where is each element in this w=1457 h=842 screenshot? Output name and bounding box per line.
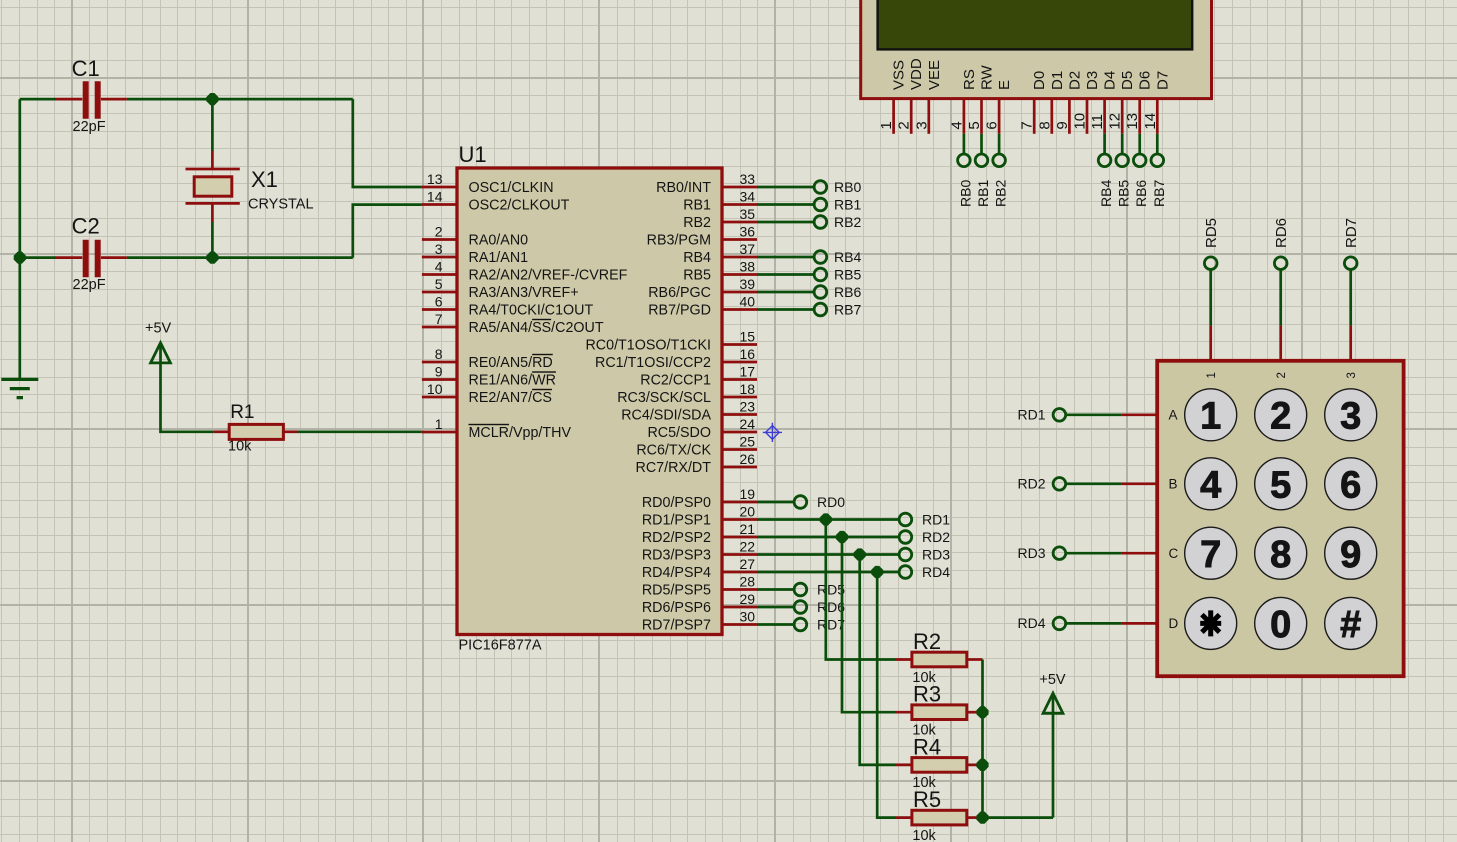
terminal RD1 keypad side	[1053, 409, 1066, 422]
wire RD7 down	[1349, 269, 1352, 326]
ground symbol	[1, 379, 38, 397]
svg-text:R5: R5	[913, 787, 941, 812]
pin 2 stub left	[422, 238, 457, 241]
svg-text:D0: D0	[1031, 71, 1048, 90]
pin 36 stub right	[722, 238, 757, 241]
resistor R2 pin right	[967, 658, 983, 661]
svg-text:RB0: RB0	[957, 180, 973, 207]
terminal RB6	[814, 286, 827, 299]
svg-text:4: 4	[1200, 465, 1221, 507]
capacitor C1 pin right	[101, 98, 127, 101]
svg-text:RD5/PSP5: RD5/PSP5	[642, 582, 711, 598]
wire LCD pin to RB6	[1138, 134, 1141, 155]
wire pin19 to terminal RD0	[757, 501, 794, 504]
LCD pin 6 E stub	[998, 99, 1001, 134]
resistor R4 pin left	[895, 764, 912, 767]
wire pin to terminal RD6	[757, 606, 794, 609]
capacitor C1 plates	[86, 81, 98, 119]
svg-text:38: 38	[740, 258, 756, 274]
junction C1 / crystal	[206, 93, 218, 105]
svg-text:2: 2	[1276, 372, 1288, 378]
pin 34 stub right	[722, 203, 757, 206]
svg-text:VSS: VSS	[891, 60, 908, 90]
svg-text:RD0/PSP0: RD0/PSP0	[642, 495, 711, 511]
pin 22 stub right	[722, 553, 757, 556]
keypad button star	[1185, 597, 1237, 649]
junction RD2	[836, 531, 848, 543]
terminal RD7 chip side	[794, 618, 807, 631]
LCD LM016L body	[861, 0, 1212, 99]
svg-text:RC5/SDO: RC5/SDO	[647, 425, 711, 441]
wire RD1 to keypad	[1065, 413, 1122, 416]
svg-text:RB1: RB1	[834, 196, 861, 212]
resistor R4 pin right	[967, 764, 983, 767]
wire RD4 to keypad	[1065, 622, 1122, 625]
pin 33 stub right	[722, 186, 757, 189]
LCD screen	[878, 0, 1193, 49]
svg-text:0: 0	[1270, 604, 1291, 646]
wire C1 node to crystal top	[211, 99, 214, 151]
pin 35 stub right	[722, 221, 757, 224]
wire RD2 to keypad	[1065, 482, 1122, 485]
terminal RD3 keypad side	[1053, 547, 1066, 560]
svg-text:U1: U1	[459, 142, 487, 167]
svg-text:23: 23	[740, 398, 756, 414]
svg-text:7: 7	[435, 311, 443, 327]
svg-text:RB7/PGD: RB7/PGD	[648, 302, 711, 318]
svg-text:RD3: RD3	[1017, 545, 1045, 561]
resistor R3 pin right	[967, 711, 983, 714]
svg-text:18: 18	[740, 381, 756, 397]
svg-text:D6: D6	[1137, 71, 1154, 90]
svg-text:RB2: RB2	[993, 180, 1009, 207]
svg-text:10k: 10k	[228, 439, 252, 455]
wire RD5 down	[1209, 269, 1212, 326]
pin 3 stub left	[422, 256, 457, 259]
svg-text:RC4/SDI/SDA: RC4/SDI/SDA	[621, 407, 711, 423]
wire LCD pin to RB4	[1103, 134, 1106, 155]
svg-text:MCLR/Vpp/THV: MCLR/Vpp/THV	[469, 425, 572, 441]
keypad col pin RD5	[1209, 326, 1212, 361]
svg-text:D1: D1	[1049, 71, 1066, 90]
terminal RB7	[814, 303, 827, 316]
svg-text:10: 10	[427, 381, 443, 397]
wire LCD pin to RB0	[963, 134, 966, 155]
svg-text:RE0/AN5/RD: RE0/AN5/RD	[469, 355, 553, 371]
svg-text:6: 6	[435, 293, 443, 309]
pin 18 stub right	[722, 396, 757, 399]
keypad button 0	[1255, 597, 1307, 649]
svg-text:12: 12	[1107, 113, 1124, 130]
svg-text:17: 17	[740, 363, 756, 379]
svg-text:RE2/AN7/CS: RE2/AN7/CS	[469, 390, 552, 406]
capacitor C2 pin right	[101, 256, 127, 259]
svg-text:36: 36	[740, 223, 756, 239]
svg-text:7: 7	[1019, 121, 1036, 129]
svg-text:30: 30	[740, 608, 756, 624]
pin 38 stub right	[722, 273, 757, 276]
svg-text:15: 15	[740, 328, 756, 344]
wire LCD pin to RB7	[1156, 134, 1159, 155]
keypad col pin RD6	[1279, 326, 1282, 361]
svg-text:9: 9	[1340, 534, 1361, 576]
svg-text:D2: D2	[1066, 71, 1083, 90]
resistor R2 pin left	[895, 658, 912, 661]
pin 8 stub left	[422, 361, 457, 364]
keypad col pin RD7	[1349, 326, 1352, 361]
wire C1 node to OSC1	[353, 99, 422, 187]
svg-text:28: 28	[740, 573, 756, 589]
svg-text:RC0/T1OSO/T1CKI: RC0/T1OSO/T1CKI	[585, 337, 711, 353]
keypad row pin RD1	[1122, 413, 1157, 416]
op-amp U1 PIC16F877A body	[457, 168, 722, 635]
svg-text:D4: D4	[1102, 71, 1119, 90]
terminal RD5 keypad top	[1204, 257, 1217, 270]
svg-text:PIC16F877A: PIC16F877A	[459, 638, 542, 654]
svg-text:RD6/PSP6: RD6/PSP6	[642, 600, 711, 616]
resistor R1 pin right	[283, 430, 297, 433]
pin 9 stub left	[422, 378, 457, 381]
wire pin to terminal RD1	[757, 518, 899, 521]
terminal RB1 LCD side	[975, 154, 988, 167]
wire pin to terminal RB5	[757, 273, 814, 276]
junction RD3	[854, 548, 866, 560]
svg-text:RC2/CCP1: RC2/CCP1	[640, 372, 711, 388]
keypad body	[1157, 361, 1403, 676]
keypad button 6	[1325, 458, 1377, 510]
LCD pin 8 D1 stub	[1050, 99, 1053, 134]
junction left rail / C2	[14, 252, 26, 264]
svg-text:RS: RS	[961, 69, 978, 90]
svg-text:40: 40	[740, 293, 756, 309]
svg-text:RD2: RD2	[922, 529, 950, 545]
svg-text:D7: D7	[1154, 71, 1171, 90]
svg-text:RB5: RB5	[834, 266, 861, 282]
svg-text:3: 3	[1346, 372, 1358, 378]
svg-text:11: 11	[1089, 114, 1106, 130]
svg-text:RD2: RD2	[1017, 476, 1045, 492]
svg-text:RB7: RB7	[834, 301, 861, 317]
svg-text:RA5/AN4/SS/C2OUT: RA5/AN4/SS/C2OUT	[469, 320, 604, 336]
junction bus R4	[976, 759, 988, 771]
svg-text:1: 1	[878, 121, 895, 129]
crystal X1 pin bottom	[211, 203, 214, 222]
svg-text:B: B	[1169, 476, 1178, 491]
wire pin to terminal RD7	[757, 623, 794, 626]
resistor R1 body	[229, 424, 283, 439]
svg-text:VDD: VDD	[908, 58, 925, 90]
resistor R3 pin left	[895, 711, 912, 714]
svg-text:RB7: RB7	[1151, 180, 1167, 207]
wire pin to terminal RB1	[757, 203, 814, 206]
svg-text:C1: C1	[72, 56, 100, 81]
wire LCD pin to RB1	[980, 134, 983, 155]
terminal RD5 chip side	[794, 583, 807, 596]
resistor R5 pin right	[967, 816, 983, 819]
svg-text:RD3: RD3	[922, 546, 950, 562]
svg-text:D: D	[1169, 616, 1179, 631]
svg-text:RD4: RD4	[922, 564, 950, 580]
svg-text:RB0/INT: RB0/INT	[656, 180, 711, 196]
svg-text:6: 6	[1340, 465, 1361, 507]
svg-text:RD7: RD7	[1343, 218, 1360, 248]
svg-text:1: 1	[1200, 396, 1221, 438]
terminal RB2	[814, 216, 827, 229]
svg-text:16: 16	[740, 346, 756, 362]
crystal X1 plate bottom	[186, 202, 240, 205]
pin 14 stub left	[422, 203, 457, 206]
wire C2 to corner	[127, 256, 353, 259]
LCD pin 2 VDD stub	[910, 99, 913, 134]
svg-text:RC3/SCK/SCL: RC3/SCK/SCL	[617, 390, 711, 406]
terminal RD0	[794, 496, 807, 509]
svg-text:RB6/PGC: RB6/PGC	[648, 285, 711, 301]
svg-text:10: 10	[1072, 113, 1089, 130]
svg-text:3: 3	[1340, 396, 1361, 438]
svg-text:+5V: +5V	[1039, 672, 1066, 688]
svg-text:VEE: VEE	[926, 60, 943, 90]
svg-text:RD1: RD1	[922, 511, 950, 527]
svg-text:25: 25	[740, 433, 756, 449]
keypad button 9	[1325, 527, 1377, 579]
terminal RD1 chip side	[899, 513, 912, 526]
svg-text:26: 26	[740, 451, 756, 467]
pin 20 stub right	[722, 518, 757, 521]
wire pin to terminal RD2	[757, 536, 899, 539]
pin 10 stub left	[422, 396, 457, 399]
svg-text:RB6: RB6	[1133, 180, 1149, 207]
power +5V arrow left	[151, 343, 171, 363]
pin 28 stub right	[722, 588, 757, 591]
resistor R5 body	[912, 810, 967, 825]
svg-text:OSC2/CLKOUT: OSC2/CLKOUT	[469, 197, 570, 213]
svg-text:RA3/AN3/VREF+: RA3/AN3/VREF+	[469, 285, 579, 301]
wire left rail vertical	[18, 99, 21, 379]
svg-text:3: 3	[435, 241, 443, 257]
wire R1 to MCLR	[297, 430, 422, 433]
junction RD1	[820, 513, 832, 525]
pin 16 stub right	[722, 361, 757, 364]
keypad button 7	[1185, 527, 1237, 579]
wire LCD pin to RB2	[998, 134, 1001, 155]
pin 21 stub right	[722, 536, 757, 539]
resistor R2 body	[912, 652, 967, 667]
svg-text:2: 2	[1270, 396, 1291, 438]
svg-text:R4: R4	[913, 734, 941, 759]
LCD pin 7 D0 stub	[1033, 99, 1036, 134]
svg-text:3: 3	[913, 121, 930, 129]
crystal X1 pin top	[211, 151, 214, 169]
LCD pin 1 VSS stub	[892, 99, 895, 134]
wire +5V to R1	[161, 345, 214, 432]
wire C1 to corner	[127, 98, 353, 101]
wire pin to terminal RD3	[757, 553, 899, 556]
svg-text:22pF: 22pF	[73, 119, 106, 135]
svg-text:RW: RW	[979, 64, 996, 90]
svg-text:13: 13	[427, 171, 443, 187]
svg-text:RB1: RB1	[683, 197, 711, 213]
capacitor C2 plates	[86, 240, 98, 278]
terminal RD3 chip side	[899, 548, 912, 561]
pin 25 stub right	[722, 448, 757, 451]
svg-text:22pF: 22pF	[73, 277, 106, 293]
svg-text:C2: C2	[72, 214, 100, 239]
svg-text:RD5: RD5	[1203, 218, 1220, 248]
resistor R1 pin left	[214, 430, 230, 433]
svg-text:X1: X1	[251, 167, 278, 192]
svg-text:RD3/PSP3: RD3/PSP3	[642, 547, 711, 563]
svg-text:D3: D3	[1084, 71, 1101, 90]
wire pin to terminal RB4	[757, 256, 814, 259]
resistor R4 body	[912, 758, 967, 773]
svg-text:RB2: RB2	[683, 215, 711, 231]
power +5V arrow right	[1043, 693, 1063, 713]
LCD pin 5 RW stub	[980, 99, 983, 134]
svg-text:RB6: RB6	[834, 284, 861, 300]
wire C2 left green	[20, 256, 56, 259]
terminal RD4 chip side	[899, 566, 912, 579]
junction C2 / crystal	[206, 252, 218, 264]
svg-text:20: 20	[740, 503, 756, 519]
terminal RB5	[814, 268, 827, 281]
svg-text:RA2/AN2/VREF-/CVREF: RA2/AN2/VREF-/CVREF	[469, 267, 628, 283]
svg-text:24: 24	[740, 416, 756, 432]
svg-text:9: 9	[435, 363, 443, 379]
keypad row pin RD2	[1122, 482, 1157, 485]
LCD pin 14 D7 stub	[1156, 99, 1159, 134]
svg-text:R1: R1	[230, 402, 254, 423]
wire crystal bottom to C2 node	[211, 222, 214, 258]
svg-text:OSC1/CLKIN: OSC1/CLKIN	[469, 180, 554, 196]
wire pin to terminal RD4	[757, 571, 899, 574]
resistor R3 body	[912, 705, 967, 720]
terminal RD2 chip side	[899, 531, 912, 544]
LCD pin 10 D3 stub	[1086, 99, 1089, 134]
capacitor C2 pin left	[56, 256, 82, 259]
wire RD3 to keypad	[1065, 552, 1122, 555]
pin 23 stub right	[722, 413, 757, 416]
svg-text:29: 29	[740, 591, 756, 607]
svg-text:5: 5	[966, 121, 983, 129]
pin 13 stub left	[422, 186, 457, 189]
junction RD4	[871, 566, 883, 578]
svg-text:RB4: RB4	[1098, 180, 1114, 207]
terminal RB0	[814, 181, 827, 194]
svg-text:RC7/RX/DT: RC7/RX/DT	[636, 460, 712, 476]
svg-text:CRYSTAL: CRYSTAL	[248, 197, 314, 213]
svg-text:D5: D5	[1119, 71, 1136, 90]
svg-text:RD4: RD4	[1017, 615, 1045, 631]
svg-text:10k: 10k	[912, 828, 936, 842]
wire pin to terminal RB7	[757, 308, 814, 311]
pin 27 stub right	[722, 571, 757, 574]
svg-text:8: 8	[435, 346, 443, 362]
svg-text:39: 39	[740, 276, 756, 292]
svg-text:7: 7	[1200, 534, 1221, 576]
pin 19 stub right	[722, 501, 757, 504]
crystal X1 plate top	[186, 168, 240, 171]
pin 17 stub right	[722, 378, 757, 381]
wire RD4 drop to resistor	[877, 572, 895, 818]
svg-text:RC1/T1OSI/CCP2: RC1/T1OSI/CCP2	[595, 355, 711, 371]
wire pin to terminal RB6	[757, 291, 814, 294]
keypad button 4	[1185, 458, 1237, 510]
svg-text:RD1: RD1	[1017, 407, 1045, 423]
svg-text:37: 37	[740, 241, 756, 257]
svg-text:R2: R2	[913, 629, 941, 654]
cursor crosshair	[763, 423, 782, 442]
pin 37 stub right	[722, 256, 757, 259]
svg-text:1: 1	[435, 416, 443, 432]
wire resistor bus to +5V	[983, 660, 1054, 818]
svg-text:9: 9	[1054, 121, 1071, 129]
svg-text:RD1/PSP1: RD1/PSP1	[642, 512, 711, 528]
svg-text:21: 21	[740, 521, 756, 537]
LCD pin 12 D5 stub	[1121, 99, 1124, 134]
pin 29 stub right	[722, 606, 757, 609]
keypad row pin RD3	[1122, 552, 1157, 555]
wire RD1 drop to resistor	[826, 520, 895, 660]
wire RD6 down	[1279, 269, 1282, 326]
svg-text:2: 2	[896, 121, 913, 129]
terminal RB5 LCD side	[1116, 154, 1129, 167]
svg-text:5: 5	[435, 276, 443, 292]
pin 7 stub left	[422, 326, 457, 329]
wire LCD pin to RB5	[1121, 134, 1124, 155]
terminal RB0 LCD side	[958, 154, 971, 167]
svg-text:RB5: RB5	[683, 267, 711, 283]
pin 26 stub right	[722, 466, 757, 469]
junction bus R3	[976, 706, 988, 718]
wire RD2 drop to resistor	[842, 537, 895, 712]
LCD pin 13 D6 stub	[1138, 99, 1141, 134]
svg-text:RB3/PGM: RB3/PGM	[647, 232, 711, 248]
svg-text:1: 1	[1206, 372, 1218, 378]
svg-text:RE1/AN6/WR: RE1/AN6/WR	[469, 372, 556, 388]
svg-text:RA1/AN1: RA1/AN1	[469, 250, 529, 266]
svg-text:4: 4	[435, 258, 443, 274]
svg-text:RB1: RB1	[975, 180, 991, 207]
svg-text:19: 19	[740, 486, 756, 502]
svg-text:RD6: RD6	[1273, 218, 1290, 248]
svg-text:8: 8	[1036, 121, 1053, 129]
terminal RD2 keypad side	[1053, 478, 1066, 491]
svg-text:A: A	[1169, 407, 1178, 422]
svg-text:27: 27	[740, 556, 756, 572]
svg-text:RD0: RD0	[817, 494, 845, 510]
svg-text:RD2/PSP2: RD2/PSP2	[642, 530, 711, 546]
svg-text:13: 13	[1124, 113, 1141, 130]
pin 39 stub right	[722, 291, 757, 294]
LCD pin 11 D4 stub	[1103, 99, 1106, 134]
keypad button 1	[1185, 389, 1237, 441]
terminal RB6 LCD side	[1133, 154, 1146, 167]
pin 1 stub left	[422, 431, 457, 434]
svg-text:#: #	[1340, 604, 1361, 646]
LCD pin 9 D2 stub	[1068, 99, 1071, 134]
keypad row pin RD4	[1122, 622, 1157, 625]
wire +5V right vertical	[1052, 695, 1055, 818]
svg-text:RB4: RB4	[683, 250, 711, 266]
wire pin to terminal RD5	[757, 588, 794, 591]
svg-text:R3: R3	[913, 682, 941, 707]
terminal RB7 LCD side	[1151, 154, 1164, 167]
svg-text:33: 33	[740, 171, 756, 187]
terminal RD6 keypad top	[1274, 257, 1287, 270]
svg-text:6: 6	[984, 121, 1001, 129]
svg-text:E: E	[996, 80, 1013, 90]
svg-text:34: 34	[740, 188, 756, 204]
